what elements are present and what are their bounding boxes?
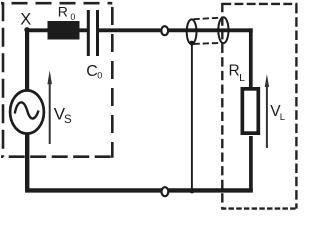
- load enclosure (dashed box): [222, 3, 297, 210]
- svg-text:0: 0: [97, 71, 102, 81]
- wire: top terminal through coax to load corner: [167, 28, 253, 32]
- svg-text:X: X: [20, 11, 31, 29]
- wire: resistor R_o to capacitor C_0: [78, 28, 88, 32]
- wire: resistor R_L to bottom rail: [249, 136, 253, 192]
- coaxial cable right ellipse: [218, 17, 228, 43]
- terminal (bottom open circle): [162, 187, 169, 196]
- wire: source V_S down to bottom rail: [25, 132, 29, 192]
- capacitor C_0: [87, 10, 90, 56]
- node X junction dot: [24, 27, 29, 32]
- wire: coax shield down to bottom rail: [191, 43, 193, 190]
- coaxial cable left ellipse: [187, 19, 197, 44]
- junction dot on bottom rail: [190, 189, 195, 194]
- wire: bottom rail: [25, 188, 253, 192]
- wire: capacitor C_0 to top terminal: [99, 28, 161, 32]
- source enclosure (dashed box): [1, 2, 112, 158]
- source V_S (sine generator): [10, 90, 44, 133]
- arrow V_L: [266, 86, 268, 148]
- svg-text:L: L: [280, 112, 285, 123]
- resistor R_o: [48, 21, 80, 40]
- junction dot on coax shield: [189, 41, 194, 46]
- svg-text:0: 0: [70, 12, 75, 22]
- wire: node X to resistor R_o: [25, 28, 49, 32]
- resistor R_L: [242, 89, 258, 133]
- terminal (top open circle): [161, 26, 168, 35]
- svg-text:C: C: [86, 63, 98, 80]
- wire: right vertical down to resistor R_L: [249, 28, 253, 88]
- svg-text:S: S: [64, 114, 72, 126]
- arrow V_S: [49, 82, 51, 144]
- coaxial cable shield (dashed cylinder body): [194, 18, 222, 20]
- svg-text:R: R: [58, 3, 68, 19]
- wire: node X down to source V_S: [25, 28, 29, 93]
- svg-text:R: R: [229, 63, 240, 80]
- svg-text:L: L: [239, 72, 245, 84]
